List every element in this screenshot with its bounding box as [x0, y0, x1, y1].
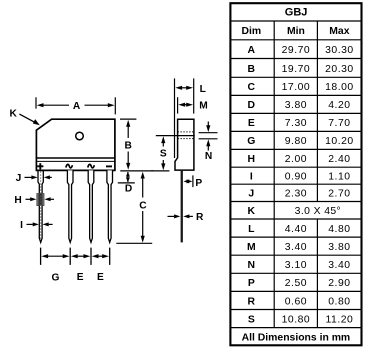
svg-text:J: J: [248, 189, 254, 200]
svg-text:4.40: 4.40: [285, 224, 307, 235]
dimension A: [36, 97, 115, 114]
svg-text:9.80: 9.80: [285, 136, 307, 147]
seating plane reference line S: [156, 135, 195, 137]
dimension K label and leader arrow: [10, 108, 40, 125]
dimension G: [41, 254, 69, 283]
svg-text:E: E: [248, 118, 255, 129]
table row D: [248, 100, 351, 111]
svg-text:3.0 X 45°: 3.0 X 45°: [295, 206, 341, 217]
dimension B: [120, 119, 136, 170]
svg-text:0.80: 0.80: [328, 296, 350, 307]
svg-text:C: C: [248, 82, 256, 93]
dimension N lower reference: [199, 138, 218, 140]
table row N: [248, 260, 351, 271]
front body divider line lower: [36, 160, 115, 162]
dimension L: [175, 78, 206, 158]
side pin lead: [181, 170, 183, 242]
pin 1 crimp block H: [37, 194, 44, 206]
pin 1 lower narrow section: [39, 206, 42, 243]
svg-text:3.80: 3.80: [285, 100, 307, 111]
table row M: [247, 242, 351, 253]
front body divider line upper: [36, 157, 115, 159]
svg-text:GBJ: GBJ: [285, 6, 308, 18]
side view dotted line lower: [178, 138, 194, 140]
svg-text:19.70: 19.70: [282, 64, 311, 75]
dimension D: [118, 172, 135, 195]
svg-text:B: B: [248, 64, 256, 75]
svg-text:E: E: [77, 272, 84, 283]
svg-text:L: L: [248, 224, 255, 235]
svg-text:All Dimensions in mm: All Dimensions in mm: [242, 332, 351, 343]
svg-text:D: D: [125, 183, 132, 194]
table row H: [248, 154, 351, 165]
svg-text:7.30: 7.30: [285, 118, 307, 129]
svg-text:3.40: 3.40: [328, 260, 350, 271]
front view body outline: [36, 119, 115, 170]
svg-text:M: M: [247, 242, 256, 253]
pin 1 wide top section: [38, 170, 43, 193]
pin 2: [67, 170, 73, 242]
dimension E (pins 3-4): [92, 254, 109, 283]
svg-text:0.60: 0.60: [285, 296, 307, 307]
mounting hole circle: [76, 132, 84, 140]
svg-text:A: A: [73, 101, 81, 112]
plus terminal mark: [37, 163, 43, 169]
svg-text:I: I: [250, 172, 253, 183]
pin 4: [107, 170, 113, 242]
svg-text:2.50: 2.50: [285, 278, 307, 289]
svg-text:G: G: [52, 272, 60, 283]
svg-text:30.30: 30.30: [325, 45, 354, 56]
svg-text:R: R: [248, 296, 256, 307]
table row L: [248, 224, 350, 235]
side view body outline: [175, 119, 194, 170]
svg-text:H: H: [248, 154, 256, 165]
svg-text:N: N: [248, 260, 256, 271]
table row P: [248, 278, 351, 289]
table row R: [248, 296, 351, 307]
dimension C: [116, 172, 152, 244]
table row A: [248, 45, 354, 56]
minus terminal mark: [106, 165, 112, 167]
svg-text:11.20: 11.20: [326, 314, 354, 325]
svg-text:D: D: [248, 100, 256, 111]
svg-text:R: R: [196, 212, 204, 223]
svg-text:S: S: [248, 314, 255, 325]
svg-text:Max: Max: [329, 26, 349, 37]
svg-text:29.70: 29.70: [282, 45, 311, 56]
dimension I: [20, 220, 53, 231]
svg-text:3.80: 3.80: [328, 242, 350, 253]
table row lines: [230, 21, 361, 328]
table row B: [248, 64, 354, 75]
dimension R: [168, 212, 205, 223]
svg-text:10.20: 10.20: [325, 136, 354, 147]
table row S: [248, 314, 353, 325]
svg-text:17.00: 17.00: [282, 82, 311, 93]
svg-text:2.90: 2.90: [328, 278, 350, 289]
svg-text:E: E: [97, 272, 104, 283]
svg-text:M: M: [199, 100, 208, 111]
svg-text:L: L: [200, 84, 206, 95]
svg-text:0.90: 0.90: [285, 172, 307, 183]
svg-text:G: G: [247, 136, 255, 147]
dimension P: [183, 175, 202, 189]
svg-text:18.00: 18.00: [325, 82, 354, 93]
dimension N arrows: [205, 122, 212, 163]
table row C: [248, 82, 354, 93]
svg-text:Min: Min: [287, 26, 305, 37]
table column lines: [274, 21, 317, 328]
pin 1 dotted centerline: [40, 171, 42, 240]
svg-text:K: K: [248, 206, 256, 217]
svg-text:2.40: 2.40: [328, 154, 350, 165]
extension line body bottom: [120, 170, 153, 172]
svg-text:Dim: Dim: [241, 26, 261, 37]
svg-text:3.10: 3.10: [285, 260, 307, 271]
svg-text:C: C: [139, 200, 147, 211]
table row G: [247, 136, 353, 147]
svg-text:H: H: [14, 195, 21, 206]
table header row: [241, 26, 349, 37]
ac tilde mark 2: [88, 164, 95, 167]
svg-text:J: J: [16, 173, 22, 184]
svg-text:20.30: 20.30: [325, 64, 354, 75]
dimension J: [16, 173, 52, 184]
dimension N upper reference: [199, 132, 218, 134]
dimension M: [178, 97, 208, 113]
svg-text:7.70: 7.70: [328, 118, 350, 129]
table row E: [248, 118, 351, 129]
svg-text:3.40: 3.40: [285, 242, 307, 253]
svg-text:K: K: [10, 108, 18, 119]
pin 3: [88, 170, 94, 242]
svg-text:B: B: [125, 141, 132, 152]
ac tilde mark 1: [66, 164, 73, 167]
svg-text:2.70: 2.70: [328, 189, 350, 200]
svg-text:4.80: 4.80: [328, 224, 350, 235]
svg-text:P: P: [248, 278, 255, 289]
svg-text:10.80: 10.80: [282, 314, 311, 325]
svg-text:1.10: 1.10: [328, 172, 350, 183]
side view dotted line upper: [178, 131, 194, 133]
dimension H: [14, 195, 54, 206]
table row I: [250, 172, 351, 183]
svg-text:2.30: 2.30: [285, 189, 307, 200]
svg-text:I: I: [20, 220, 23, 231]
table row K: [248, 206, 342, 217]
svg-text:2.00: 2.00: [285, 154, 307, 165]
dimension table frame: [230, 3, 361, 345]
dimension E (pins 2-3): [71, 254, 90, 283]
svg-text:S: S: [160, 149, 167, 160]
dimension S: [151, 136, 169, 171]
svg-text:P: P: [195, 178, 202, 189]
pin pitch extension bars: [41, 248, 110, 265]
svg-text:A: A: [248, 45, 256, 56]
svg-text:4.20: 4.20: [328, 100, 350, 111]
svg-text:N: N: [205, 151, 212, 162]
table row J: [248, 189, 350, 200]
